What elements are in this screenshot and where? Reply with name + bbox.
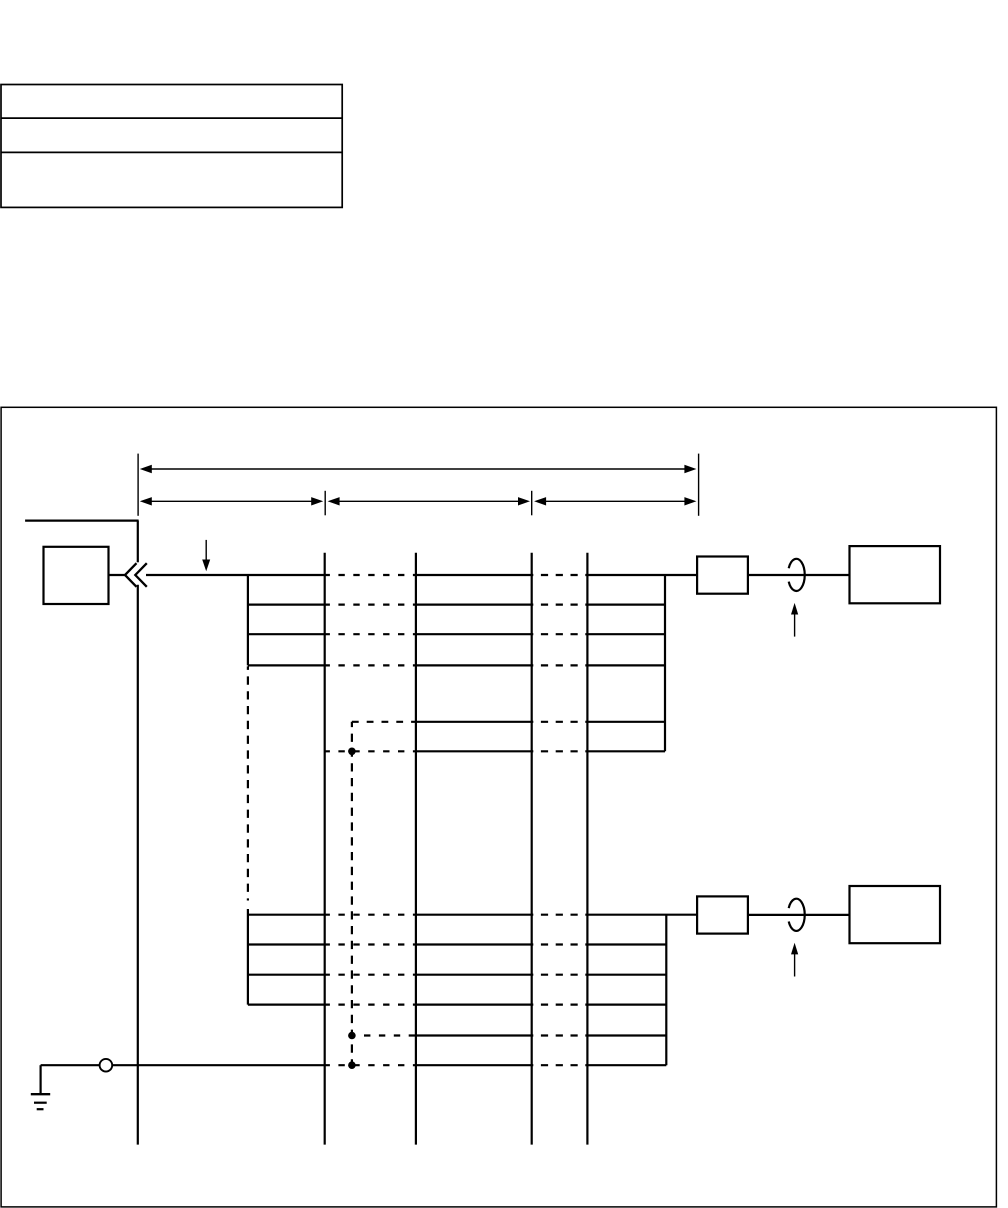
upper up arrow [791, 603, 798, 637]
main feeder dashed seg B [532, 574, 588, 576]
main feeder solid to connector [587, 574, 697, 576]
ground feeder line [41, 1064, 325, 1066]
lower drive box [850, 886, 941, 943]
upper left drop vertical [247, 575, 249, 665]
dimension extension tick left [137, 454, 139, 516]
main feeder line solid [146, 574, 325, 576]
lower rung 1 mid solid [416, 914, 532, 916]
upper rung 3 left [248, 633, 325, 635]
lower rung 3 mid solid [416, 974, 532, 976]
feeder stub [109, 574, 126, 576]
lower rung 2 right solid [587, 943, 666, 945]
upper rung 6 right solid [587, 750, 665, 752]
upper rung 3 right solid [587, 633, 665, 635]
lower rung 6 dashed [325, 1064, 416, 1066]
upper rung 4 dashed [325, 664, 416, 666]
lower rotation loop [789, 899, 805, 931]
dashed rung y751 left [325, 750, 416, 752]
upper rung 2 right solid [587, 603, 665, 605]
segment dimension arrow B [328, 497, 530, 505]
lower shaft line [748, 914, 850, 916]
drop arrow [202, 540, 210, 571]
lower rung 2 mid solid [416, 943, 532, 945]
segment dimension arrow C [534, 497, 696, 505]
upper rung 5 dashed B [532, 721, 588, 723]
lower rung 3 right solid [587, 974, 666, 976]
upper rung 4 left [248, 664, 325, 666]
lower rung 4 left [248, 1003, 325, 1005]
bus line 2 [324, 553, 326, 1145]
dimension extension tick mid1 [324, 491, 326, 516]
dashed corner horizontal [352, 721, 416, 723]
upper rung 6 dashed B [532, 750, 588, 752]
upper connector box [697, 557, 748, 594]
upper rung 2 left [248, 603, 325, 605]
ground bar 3 [37, 1108, 44, 1110]
lower drop solid vertical [247, 909, 249, 1005]
lower rung 6 dashed B [532, 1064, 588, 1066]
lower rung 4 dashed B [532, 1003, 588, 1005]
upper ladder right edge [664, 575, 666, 751]
lower rung 5 dashed B [532, 1034, 588, 1036]
lower rung 1 left [248, 914, 325, 916]
ground bar 1 [31, 1093, 50, 1095]
wall vertical lower [137, 585, 139, 1145]
lower rung 3 dashed B [532, 974, 588, 976]
upper shaft line [748, 574, 850, 576]
lower rung 6 right solid [587, 1064, 666, 1066]
lower rung 3 dashed [325, 974, 416, 976]
bus line 4 [531, 553, 533, 1145]
lower rung 2 dashed [325, 943, 416, 945]
bus line 5 [586, 553, 588, 1145]
upper rung 5 mid solid [416, 721, 532, 723]
ground vertical [39, 1065, 41, 1093]
dimension extension tick mid2 [531, 491, 533, 516]
source box [44, 547, 109, 604]
lower ladder right edge [665, 915, 667, 1065]
upper rung 3 mid solid [416, 633, 532, 635]
isolation circle [100, 1059, 113, 1072]
upper rung 5 right solid [587, 721, 665, 723]
upper rotation loop [789, 559, 805, 591]
wall vertical upper [137, 521, 139, 563]
lower rung 3 left [248, 974, 325, 976]
upper rung 3 dashed [325, 633, 416, 635]
lower rung 6 mid solid [416, 1064, 532, 1066]
lower rung 2 dashed B [532, 943, 588, 945]
segment dimension arrow A [140, 497, 323, 505]
lower rung 4 dashed [325, 1003, 416, 1005]
lower rung 5 dashed [356, 1034, 416, 1036]
lower rung 2 left [248, 943, 325, 945]
junction dot C [348, 1061, 356, 1069]
lower rung 5 mid solid [416, 1034, 532, 1036]
overall dimension arrow [140, 465, 697, 473]
ground bar 2 [34, 1102, 47, 1104]
chevron inner [135, 563, 147, 587]
bus line 3 [415, 553, 417, 1145]
upper rung 2 mid solid [416, 603, 532, 605]
lower rung 4 mid solid [416, 1003, 532, 1005]
lower rung 1 right solid to connector [587, 914, 697, 916]
upper rung 4 right solid [587, 664, 665, 666]
upper rung 2 dashed B [532, 603, 588, 605]
lower rung 1 dashed B [532, 914, 588, 916]
upper rung 3 dashed B [532, 633, 588, 635]
wall horizontal [25, 519, 139, 521]
main feeder solid seg [416, 574, 532, 576]
upper rung 2 dashed [325, 603, 416, 605]
upper rung 6 mid solid [416, 750, 532, 752]
lower rung 1 dashed [325, 914, 416, 916]
legend table [1, 85, 342, 208]
upper rung 4 dashed B [532, 664, 588, 666]
chevron outer [125, 563, 137, 587]
upper drive box [850, 546, 941, 603]
junction dot B [348, 1032, 356, 1040]
lower up arrow [791, 943, 798, 977]
figure border frame [1, 407, 996, 1207]
lower rung 4 right solid [587, 1003, 666, 1005]
dashed corner vertical [351, 722, 353, 1065]
upper rung 4 mid solid [416, 664, 532, 666]
mid drop dashed vertical [247, 666, 249, 900]
dimension extension tick right [698, 454, 700, 516]
junction dot A [348, 748, 356, 756]
lower connector box [697, 896, 748, 933]
lower rung 5 right solid [587, 1034, 666, 1036]
main feeder dashed seg A [325, 574, 416, 576]
